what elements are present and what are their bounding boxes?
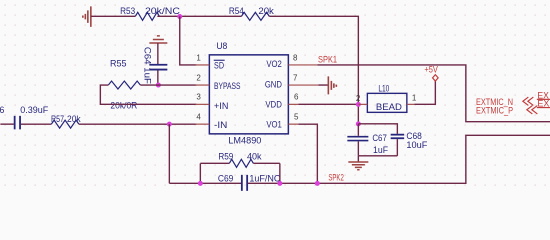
svg-text:C69: C69 — [218, 173, 234, 183]
junction R59 left leg — [198, 181, 203, 186]
svg-text:3: 3 — [196, 93, 201, 102]
junction cap node — [356, 121, 361, 126]
junction R59 right leg — [277, 181, 282, 186]
svg-text:4: 4 — [196, 113, 201, 122]
L10 pin 2 — [358, 103, 367, 105]
ground at pin 7 (pointing right) — [328, 76, 336, 94]
SPK2 rail wire to right edge — [248, 135, 550, 183]
wire ground to R53 — [91, 15, 136, 17]
svg-text:1uF/NC: 1uF/NC — [249, 173, 280, 183]
op-amp U8 LM4890 — [209, 41, 288, 146]
junction -IN node — [167, 122, 172, 127]
resistor R59 bridge — [200, 152, 280, 184]
capacitor C69 — [218, 173, 281, 191]
wire R55 left leg to +IN — [100, 85, 196, 104]
U8 pin 2 (BYPASS) — [195, 84, 209, 86]
wire cap node to C68 — [358, 124, 397, 134]
junction node A — [177, 14, 182, 19]
svg-text:BYPASS: BYPASS — [214, 81, 240, 91]
ground above C64 (flipped) — [149, 36, 167, 43]
svg-text:SD: SD — [214, 61, 224, 71]
svg-text:C66: C66 — [0, 105, 4, 115]
wire C67 bottom to C68 bottom — [358, 155, 397, 157]
svg-text:20k: 20k — [67, 114, 81, 124]
capacitor C67 — [347, 124, 388, 156]
svg-text:40k: 40k — [247, 152, 262, 162]
svg-text:10uF: 10uF — [406, 140, 428, 150]
U8 pin 5 (VO1) — [288, 123, 298, 125]
svg-text:GND: GND — [265, 80, 282, 90]
port chevrons EXTMIC_P — [527, 106, 538, 114]
svg-text:20k: 20k — [258, 6, 274, 16]
U8 pin 1 (SD) — [195, 64, 209, 66]
U8 pin 7 (GND) — [288, 84, 318, 86]
svg-text:C67: C67 — [372, 133, 387, 143]
capacitor C66 (input) — [0, 105, 49, 130]
svg-text:R53: R53 — [120, 6, 135, 16]
svg-text:EXTMIC_P: EXTMIC_P — [476, 106, 513, 116]
wire pin 5 down to SPK2 rail — [298, 124, 317, 183]
svg-text:VDD: VDD — [265, 99, 282, 109]
svg-text:2: 2 — [356, 94, 361, 103]
U8 pin 8 (VO2) — [288, 64, 317, 66]
wire node A down to pin 1 — [180, 16, 197, 65]
svg-text:+5V: +5V — [424, 64, 438, 74]
U8 pin 3 (+IN) — [195, 103, 209, 105]
svg-text:8: 8 — [293, 53, 298, 62]
power +5V — [424, 64, 438, 81]
svg-text:5: 5 — [294, 113, 299, 122]
ground GND1 top-left (pointing left) — [83, 6, 91, 27]
svg-text:1uF: 1uF — [373, 145, 388, 155]
svg-text:-IN: -IN — [214, 120, 227, 130]
svg-text:R55: R55 — [110, 59, 127, 69]
wire R55 right to pin 2 — [140, 84, 196, 86]
wire R53 to node A — [157, 15, 241, 17]
svg-text:1: 1 — [412, 94, 417, 103]
svg-text:20k/0R: 20k/0R — [110, 101, 137, 111]
U8 pin 6 (VDD) — [288, 103, 298, 105]
svg-text:VO1: VO1 — [266, 119, 282, 129]
wire pin 6 to VDD node — [298, 103, 358, 105]
net SPK1 wire pin8 to right edge — [317, 65, 550, 122]
svg-text:R54: R54 — [229, 6, 244, 16]
svg-text:C64 1uF: C64 1uF — [142, 47, 152, 85]
svg-text:R57: R57 — [51, 114, 64, 124]
resistor R55 — [108, 59, 140, 111]
ground below C67 — [348, 156, 368, 170]
svg-text:20k/NC: 20k/NC — [145, 6, 181, 16]
svg-text:+IN: +IN — [214, 101, 228, 111]
resistor R53 — [120, 6, 180, 20]
svg-text:LM4890: LM4890 — [228, 135, 261, 145]
svg-text:0.39uF: 0.39uF — [20, 105, 48, 115]
L10 pin 1 — [407, 103, 415, 105]
wire R54 to VDD rail corner — [269, 16, 358, 124]
svg-text:L10: L10 — [378, 83, 389, 93]
U8 pin 4 (-IN) — [195, 123, 209, 125]
svg-text:U8: U8 — [216, 41, 227, 51]
svg-text:2: 2 — [196, 73, 201, 82]
wire R57 to pin 4 — [79, 123, 197, 125]
feedback rail wire (left part) — [169, 182, 241, 184]
wire L10 to +5V — [414, 81, 435, 105]
svg-text:VO2: VO2 — [266, 59, 282, 69]
wire -IN node down to feedback rail — [168, 124, 170, 183]
svg-text:SPK1: SPK1 — [318, 54, 337, 64]
svg-text:1: 1 — [196, 53, 201, 62]
svg-text:SPK2: SPK2 — [328, 172, 344, 182]
port chevrons EXTMIC_N — [523, 97, 534, 105]
inductor L10 BEAD — [367, 83, 407, 112]
resistor R57 — [51, 114, 81, 128]
junction VDD node — [356, 102, 361, 107]
wire C66 to R57 — [21, 123, 51, 125]
resistor R54 — [229, 6, 275, 20]
junction VO1/SPK2 — [315, 181, 320, 186]
svg-text:6: 6 — [294, 93, 299, 102]
svg-text:BEAD: BEAD — [376, 102, 403, 112]
svg-text:7: 7 — [293, 73, 298, 82]
svg-text:R59: R59 — [218, 152, 233, 162]
junction C64 / pin 2 — [156, 83, 161, 88]
capacitor C64 — [142, 43, 167, 85]
wire pin 7 to ground — [318, 84, 328, 86]
capacitor C68 — [391, 131, 428, 156]
